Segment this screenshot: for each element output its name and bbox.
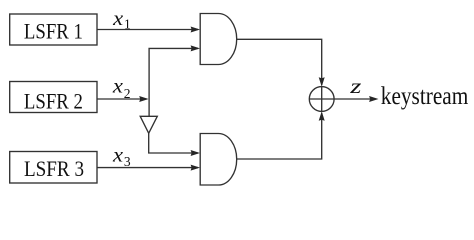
and-gate U1 top — [200, 14, 237, 65]
xor plus vertical — [321, 87, 323, 112]
xor plus horizontal — [309, 98, 334, 100]
arrowhead x1 into AND1 — [191, 27, 200, 33]
svg-text:3: 3 — [124, 154, 131, 169]
svg-text:2: 2 — [124, 86, 131, 101]
svg-text:LSFR 3: LSFR 3 — [24, 157, 84, 181]
svg-text:x: x — [112, 146, 124, 167]
and-gate U2 bottom — [200, 134, 237, 186]
xor gate circle — [309, 87, 334, 112]
arrowhead inverter out into AND2 — [191, 150, 200, 156]
wire inverter to AND2 input A — [149, 133, 198, 153]
svg-text:x: x — [112, 9, 124, 30]
arrowhead z to keystream — [369, 96, 378, 102]
svg-text:z: z — [349, 74, 362, 98]
inverter triangle — [140, 116, 157, 133]
arrowhead node B into AND1 — [191, 45, 200, 51]
arrowhead x3 into AND2 — [191, 165, 200, 171]
wire AND1 output to XOR top — [237, 39, 322, 85]
arrowhead x2 into junction — [139, 96, 148, 102]
wire x3: box3 to AND2 input B — [97, 167, 198, 169]
wire x2: box2 to junction — [97, 98, 147, 100]
svg-text:keystream: keystream — [381, 83, 469, 110]
wire z output — [334, 98, 370, 100]
svg-text:x: x — [112, 77, 124, 98]
svg-text:LSFR 1: LSFR 1 — [24, 20, 83, 44]
arrowhead into XOR bottom (up) — [319, 111, 325, 120]
wire AND2 output to XOR bottom — [237, 113, 322, 159]
arrowhead into XOR top (down) — [319, 77, 325, 86]
wire node B vertical: junction to AND1 input B — [149, 48, 198, 116]
box LSFR 1 — [10, 14, 97, 45]
svg-text:1: 1 — [124, 17, 131, 32]
box LSFR 2 — [10, 82, 97, 113]
box LSFR 3 — [10, 152, 97, 184]
svg-text:LSFR 2: LSFR 2 — [24, 90, 83, 114]
wire x1: box1 to AND1 input A — [97, 29, 198, 31]
